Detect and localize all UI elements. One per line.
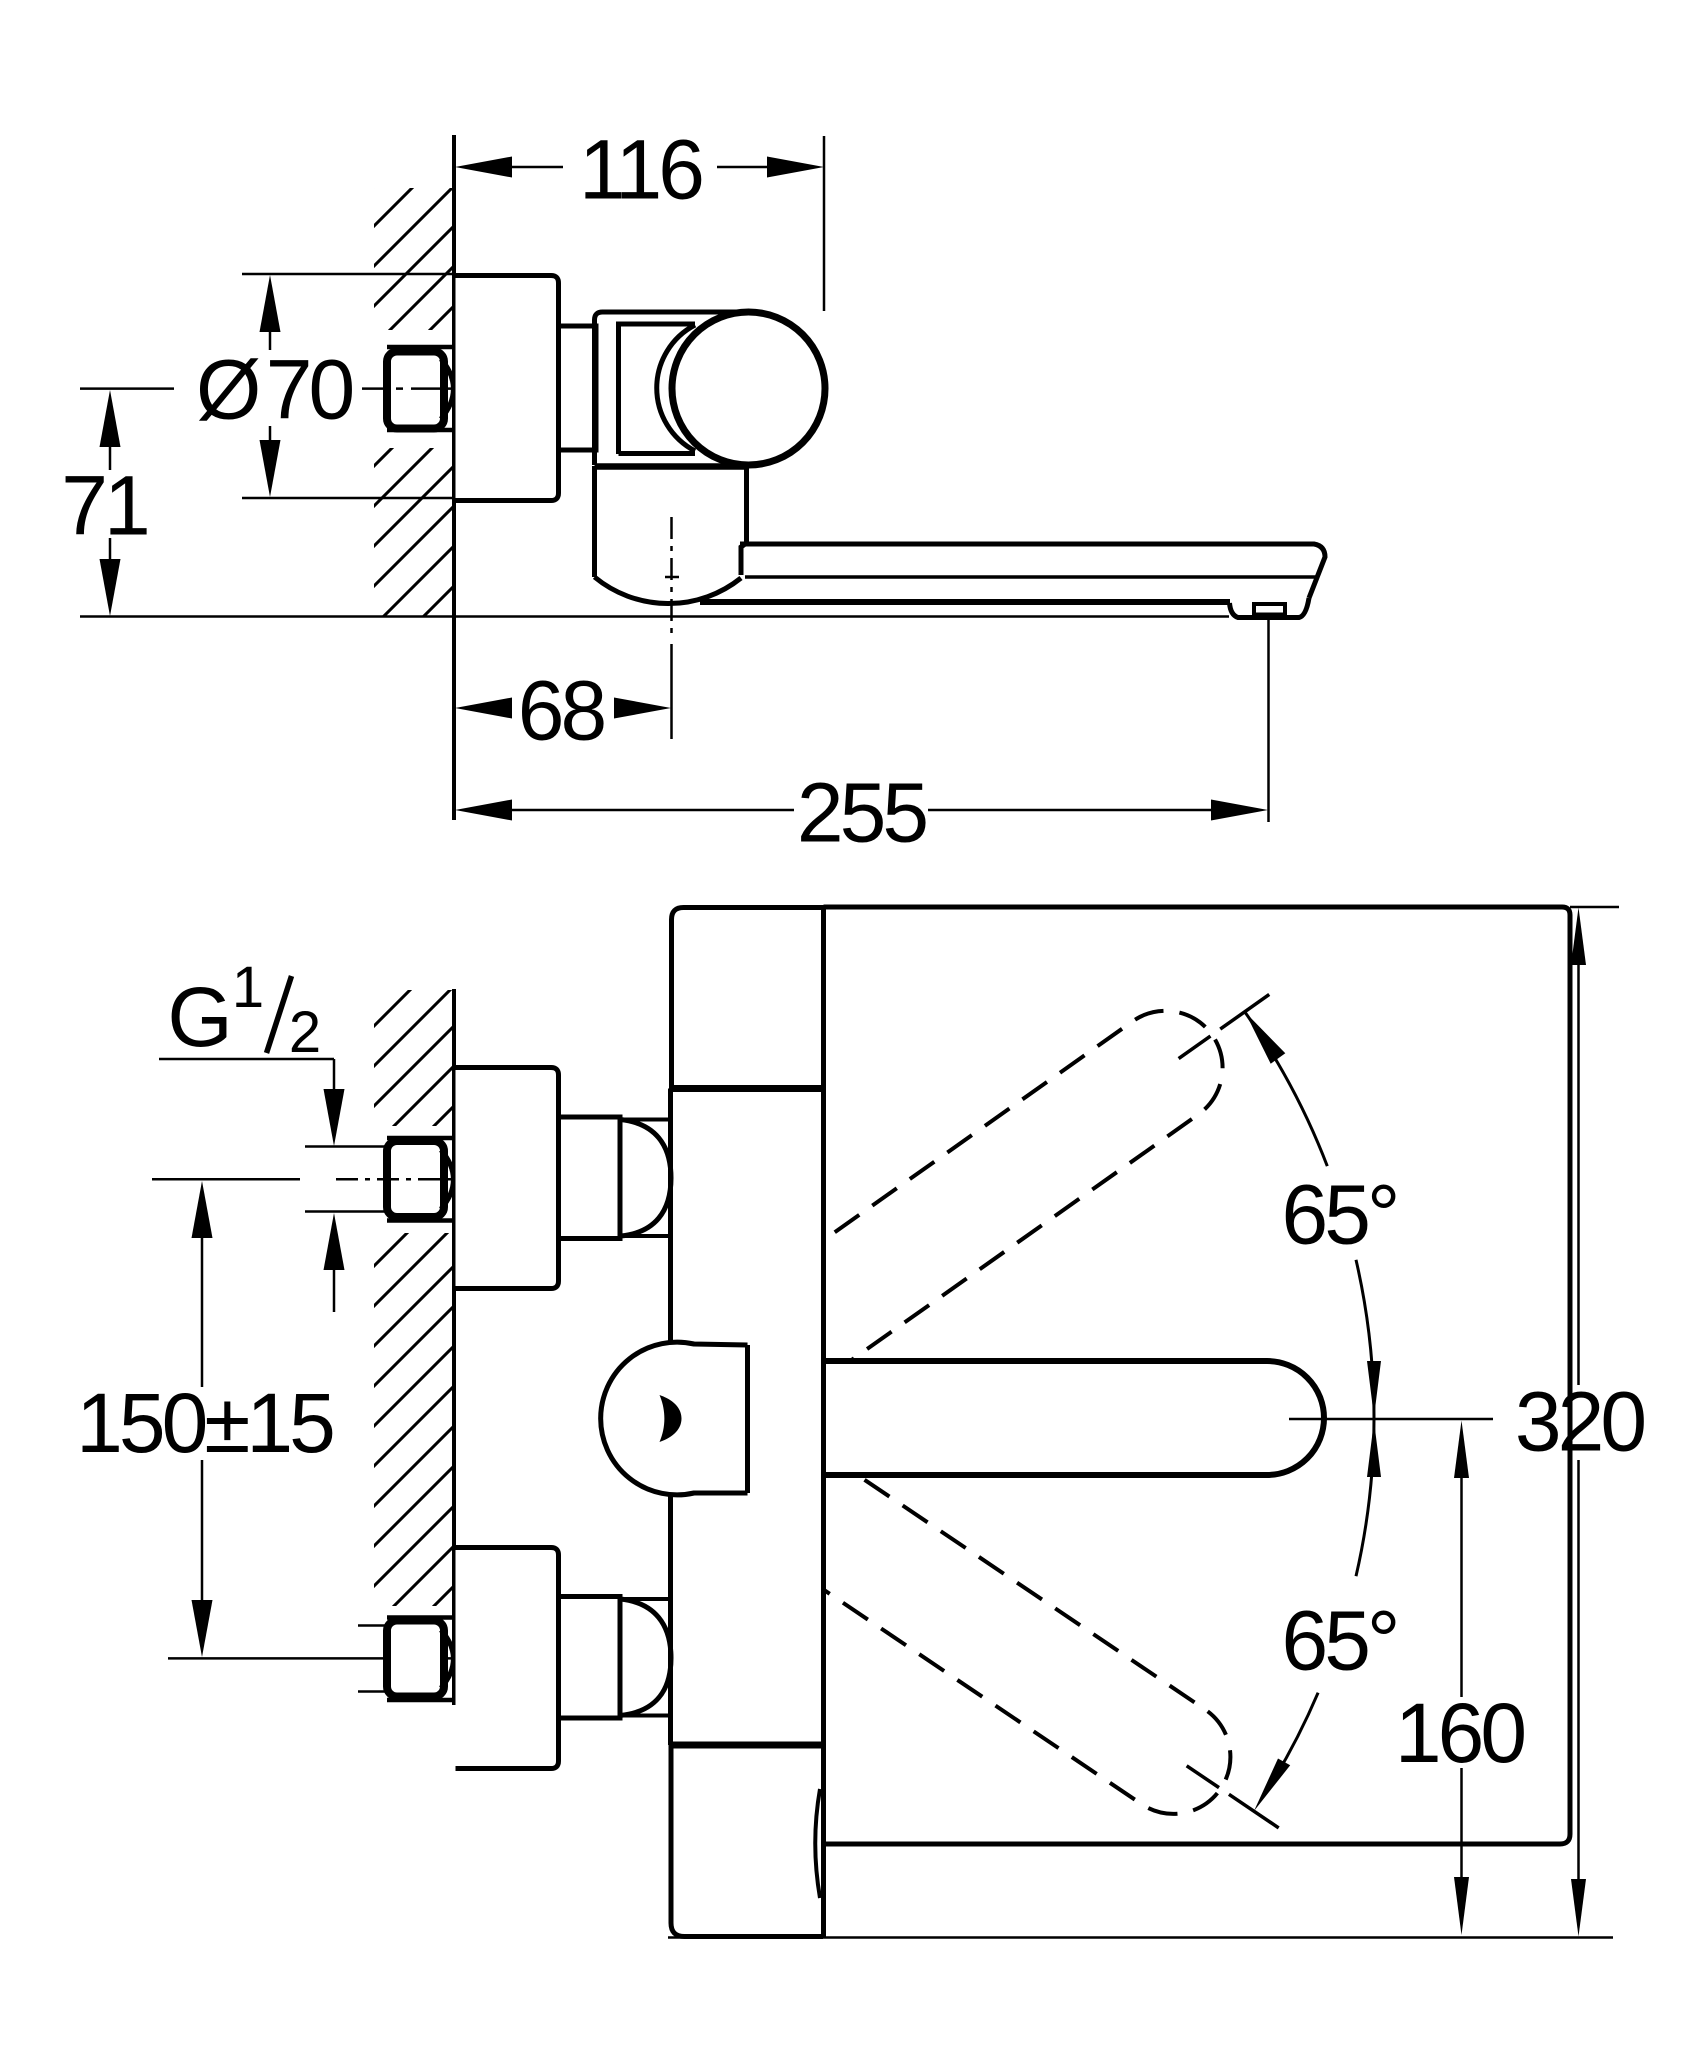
svg-text:65°: 65° xyxy=(1281,1168,1396,1262)
svg-text:71: 71 xyxy=(61,459,147,553)
svg-text:150±15: 150±15 xyxy=(76,1376,333,1470)
svg-text:116: 116 xyxy=(579,123,702,217)
svg-text:320: 320 xyxy=(1515,1375,1644,1469)
svg-text:255: 255 xyxy=(797,766,926,860)
svg-text:1: 1 xyxy=(232,955,264,1020)
svg-text:G: G xyxy=(167,970,232,1064)
svg-text:70: 70 xyxy=(266,343,353,437)
svg-text:Ø: Ø xyxy=(196,343,259,437)
svg-text:68: 68 xyxy=(518,664,605,758)
svg-text:65°: 65° xyxy=(1281,1594,1396,1688)
svg-text:2: 2 xyxy=(289,1000,321,1065)
svg-text:160: 160 xyxy=(1395,1686,1524,1780)
